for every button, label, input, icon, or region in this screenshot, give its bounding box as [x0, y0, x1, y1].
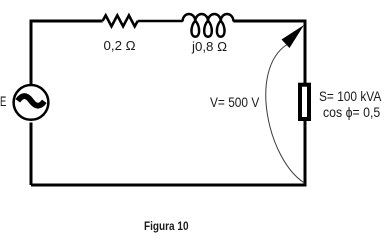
label 0,2 ohm (resistor value): [104, 38, 136, 53]
V=500V measurement arc: [266, 45, 305, 184]
load S rectangle: [300, 85, 309, 119]
wire right vertical (top corner to load): [304, 20, 307, 85]
AC source E circle: [14, 85, 49, 120]
label S= 100 kVA (load power): [319, 88, 381, 104]
label V= 500 V (voltage): [210, 94, 259, 110]
label E (source): [0, 94, 6, 109]
resistor R 0,2 ohm zigzag: [103, 15, 138, 26]
wire top-right horizontal (inductor to right corner): [233, 20, 305, 23]
caption Figura 10: [144, 219, 189, 233]
wire bottom horizontal: [31, 184, 305, 187]
arrowhead of V arc: [282, 25, 305, 48]
wire between resistor and inductor: [138, 20, 183, 23]
label j0,8 ohm (inductor value): [192, 39, 227, 54]
label cos phi= 0,5 (power factor): [323, 104, 380, 120]
AC source sine symbol: [18, 96, 45, 106]
wire top-left horizontal (to resistor): [31, 20, 103, 23]
wire left vertical (source to bottom corner): [30, 123, 33, 186]
wire right vertical (load to bottom corner): [304, 120, 307, 187]
inductor L j0,8 ohm coil: [183, 14, 234, 37]
wire left vertical (top corner to source): [30, 20, 33, 85]
